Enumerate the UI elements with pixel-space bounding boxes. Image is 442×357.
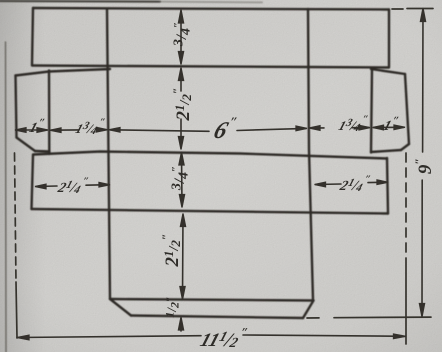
vertical chain seg4 2.5 (182, 215, 185, 298)
11 1/2 bottom (197, 325, 249, 351)
band3 dim 2.25 left (36, 185, 57, 188)
left flap bottom chamfer (17, 138, 36, 152)
band2 dim 1 inch right (374, 126, 405, 128)
left edge shading (0, 0, 46, 352)
bottom lip right chamfer (303, 301, 314, 319)
left flap fold line (48, 71, 51, 155)
11.5 inch bottom dim (17, 336, 201, 338)
9 dim top tick (407, 8, 433, 10)
right extension line (flap edge to 11.5 dim) (405, 153, 407, 258)
9 inch vertical dim (422, 10, 424, 152)
1 inch left (27, 117, 46, 136)
left cut line full height (107, 9, 110, 299)
1 3/4 left (73, 117, 106, 137)
page left border (5, 42, 8, 352)
bottom lip crease (110, 299, 314, 301)
half inch arrow below bottom edge (180, 319, 182, 332)
top flap right edge (388, 10, 390, 68)
left extension line (15, 153, 17, 282)
band2 dim 1.75 right (310, 127, 324, 129)
2 1/2 upper (170, 87, 194, 121)
right flap top chamfer (371, 69, 405, 74)
band3 left rect left edge (32, 155, 34, 209)
left flap outer edge (16, 76, 17, 138)
9 inch right (412, 158, 436, 174)
2 1/4 right (337, 174, 372, 194)
bottom edge dashed extension right (307, 317, 319, 319)
body bottom fold (band2/band3) (33, 152, 387, 159)
left flap bottom edge (35, 150, 50, 153)
band2 dim 6 inch (110, 130, 209, 132)
top right dash between flap and 9dim (392, 8, 403, 10)
top flap top edge (33, 8, 389, 10)
top flap bottom / body top fold (32, 66, 389, 68)
3/4 middle (170, 166, 192, 191)
vertical chain seg2 2.5 (180, 69, 182, 91)
1 3/4 right (336, 114, 369, 134)
right flap outer edge (405, 74, 409, 144)
page top border (0, 0, 160, 3)
left flap top edge (16, 69, 111, 76)
2 1/4 left (55, 176, 90, 196)
1 inch right (381, 115, 400, 134)
3/4 top (172, 22, 194, 47)
1/2 bottom (163, 296, 182, 317)
2 1/2 lower (159, 233, 183, 267)
band2 dim 1.75 left (51, 129, 78, 131)
vertical chain seg1 3/4 (180, 11, 182, 63)
right cut line full height (308, 9, 313, 300)
6 inch (211, 114, 240, 144)
top flap left edge (32, 8, 33, 65)
band3 dim 2.25 right (316, 183, 342, 186)
bottom lip bottom edge (131, 316, 303, 319)
right flap bottom chamfer (401, 144, 409, 150)
vertical chain seg3 3/4 (181, 154, 184, 207)
right flap bottom edge (371, 150, 401, 152)
right flap fold line (371, 69, 372, 153)
band3 bottom fold full width (32, 209, 389, 214)
band2 dim 1 inch left (16, 129, 47, 131)
band3 right rect right edge (387, 158, 388, 214)
bottom lip left chamfer (110, 299, 131, 316)
